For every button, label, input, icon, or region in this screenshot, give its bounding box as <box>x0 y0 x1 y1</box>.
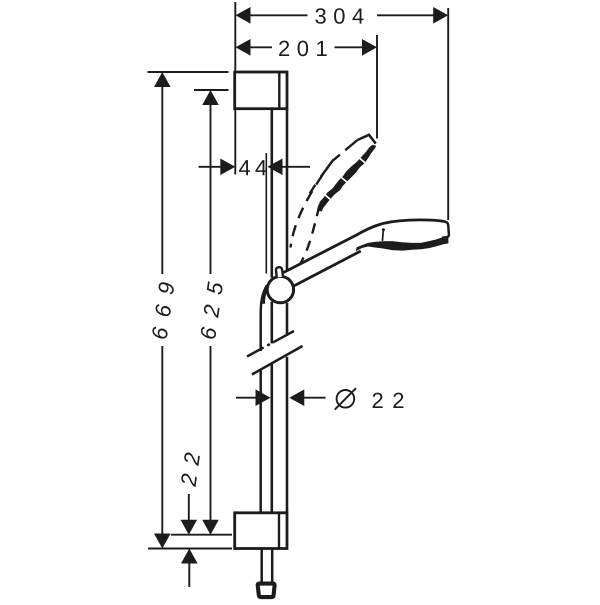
extension line of 201 (to raised hand shower) <box>376 35 378 139</box>
extension line right of 304 (to hand shower) <box>447 8 449 220</box>
dimension 22 label <box>180 452 200 487</box>
extension line left of 304/201/44 <box>234 2 236 71</box>
dimension 201 horizontal line <box>250 46 363 48</box>
hand shower handle upper edge and head top edge <box>284 220 445 273</box>
shower hose upper curve <box>261 286 267 352</box>
break symbol upper diagonal <box>247 331 294 357</box>
raised hand shower outer dashed curve <box>291 160 334 248</box>
hand shower face tick mark <box>382 230 383 242</box>
dimension 44 right extension thin line <box>265 153 267 274</box>
dimension 625 vertical line <box>210 104 212 520</box>
tick line bottom lower (bracket bottom) <box>148 548 232 550</box>
wall rail rod right edge <box>286 109 289 513</box>
dimension 44 right arrow and tail <box>268 159 283 176</box>
holder knob <box>276 267 283 277</box>
top wall bracket <box>235 72 287 109</box>
dimension 201 label <box>279 41 327 57</box>
dimension 669 top arrow <box>154 72 171 87</box>
tick line bottom upper (rod end) <box>171 534 232 536</box>
raised hand shower inner dashed curve <box>310 166 329 194</box>
raised hand shower spray face dark band <box>317 145 376 212</box>
raised hand shower inner handle dashed curve <box>295 206 320 273</box>
dimension 304 left arrow <box>236 7 251 24</box>
hand shower head right edge <box>442 222 449 238</box>
wall rail rod left edge <box>270 109 273 513</box>
raised hand shower solid head corner <box>358 135 376 144</box>
dimension diameter 22 left line and arrow <box>236 397 257 399</box>
hand shower spray face dark crescent <box>356 236 448 251</box>
dimension 304 label <box>315 8 363 24</box>
dimension diameter 22 label <box>373 393 404 408</box>
dimension 625 label <box>200 281 223 339</box>
shower hose lower straight run <box>259 370 262 513</box>
hose connector tube below bracket <box>262 549 273 582</box>
tick line top for 625 <box>194 89 229 91</box>
hand shower body white fill <box>284 220 449 289</box>
dimension 201 left arrow <box>236 39 251 56</box>
dimension diameter 22 right arrow and tail <box>289 389 304 406</box>
dimension 22 lower line and arrow <box>181 549 198 564</box>
break symbol lower diagonal <box>252 346 303 375</box>
dimension 22 upper line and arrow <box>188 494 190 520</box>
dimension 669 label <box>151 282 174 340</box>
dimension 669 bottom arrow <box>154 534 171 549</box>
dimension 201 right arrow <box>362 39 377 56</box>
dimension 625 bottom arrow <box>202 520 219 535</box>
dimension 304 horizontal line <box>250 14 434 16</box>
tick line top for 669 <box>148 71 229 73</box>
diameter symbol <box>335 388 356 409</box>
dimension 44 left line and arrow <box>199 166 222 168</box>
holder ball <box>267 276 293 302</box>
raised band white notches <box>324 157 364 199</box>
bottom wall bracket <box>235 513 287 549</box>
hose end cap <box>258 584 275 598</box>
hand shower handle lower edge <box>289 251 361 289</box>
raised hand shower outer curve tail dash below holder <box>264 291 266 304</box>
dimension 669 vertical line <box>161 86 163 534</box>
raised hand shower dashed top edge <box>333 140 358 161</box>
dimension 304 right arrow <box>433 7 448 24</box>
dimension 625 top arrow <box>202 90 219 105</box>
dimension 44 label <box>239 160 267 175</box>
